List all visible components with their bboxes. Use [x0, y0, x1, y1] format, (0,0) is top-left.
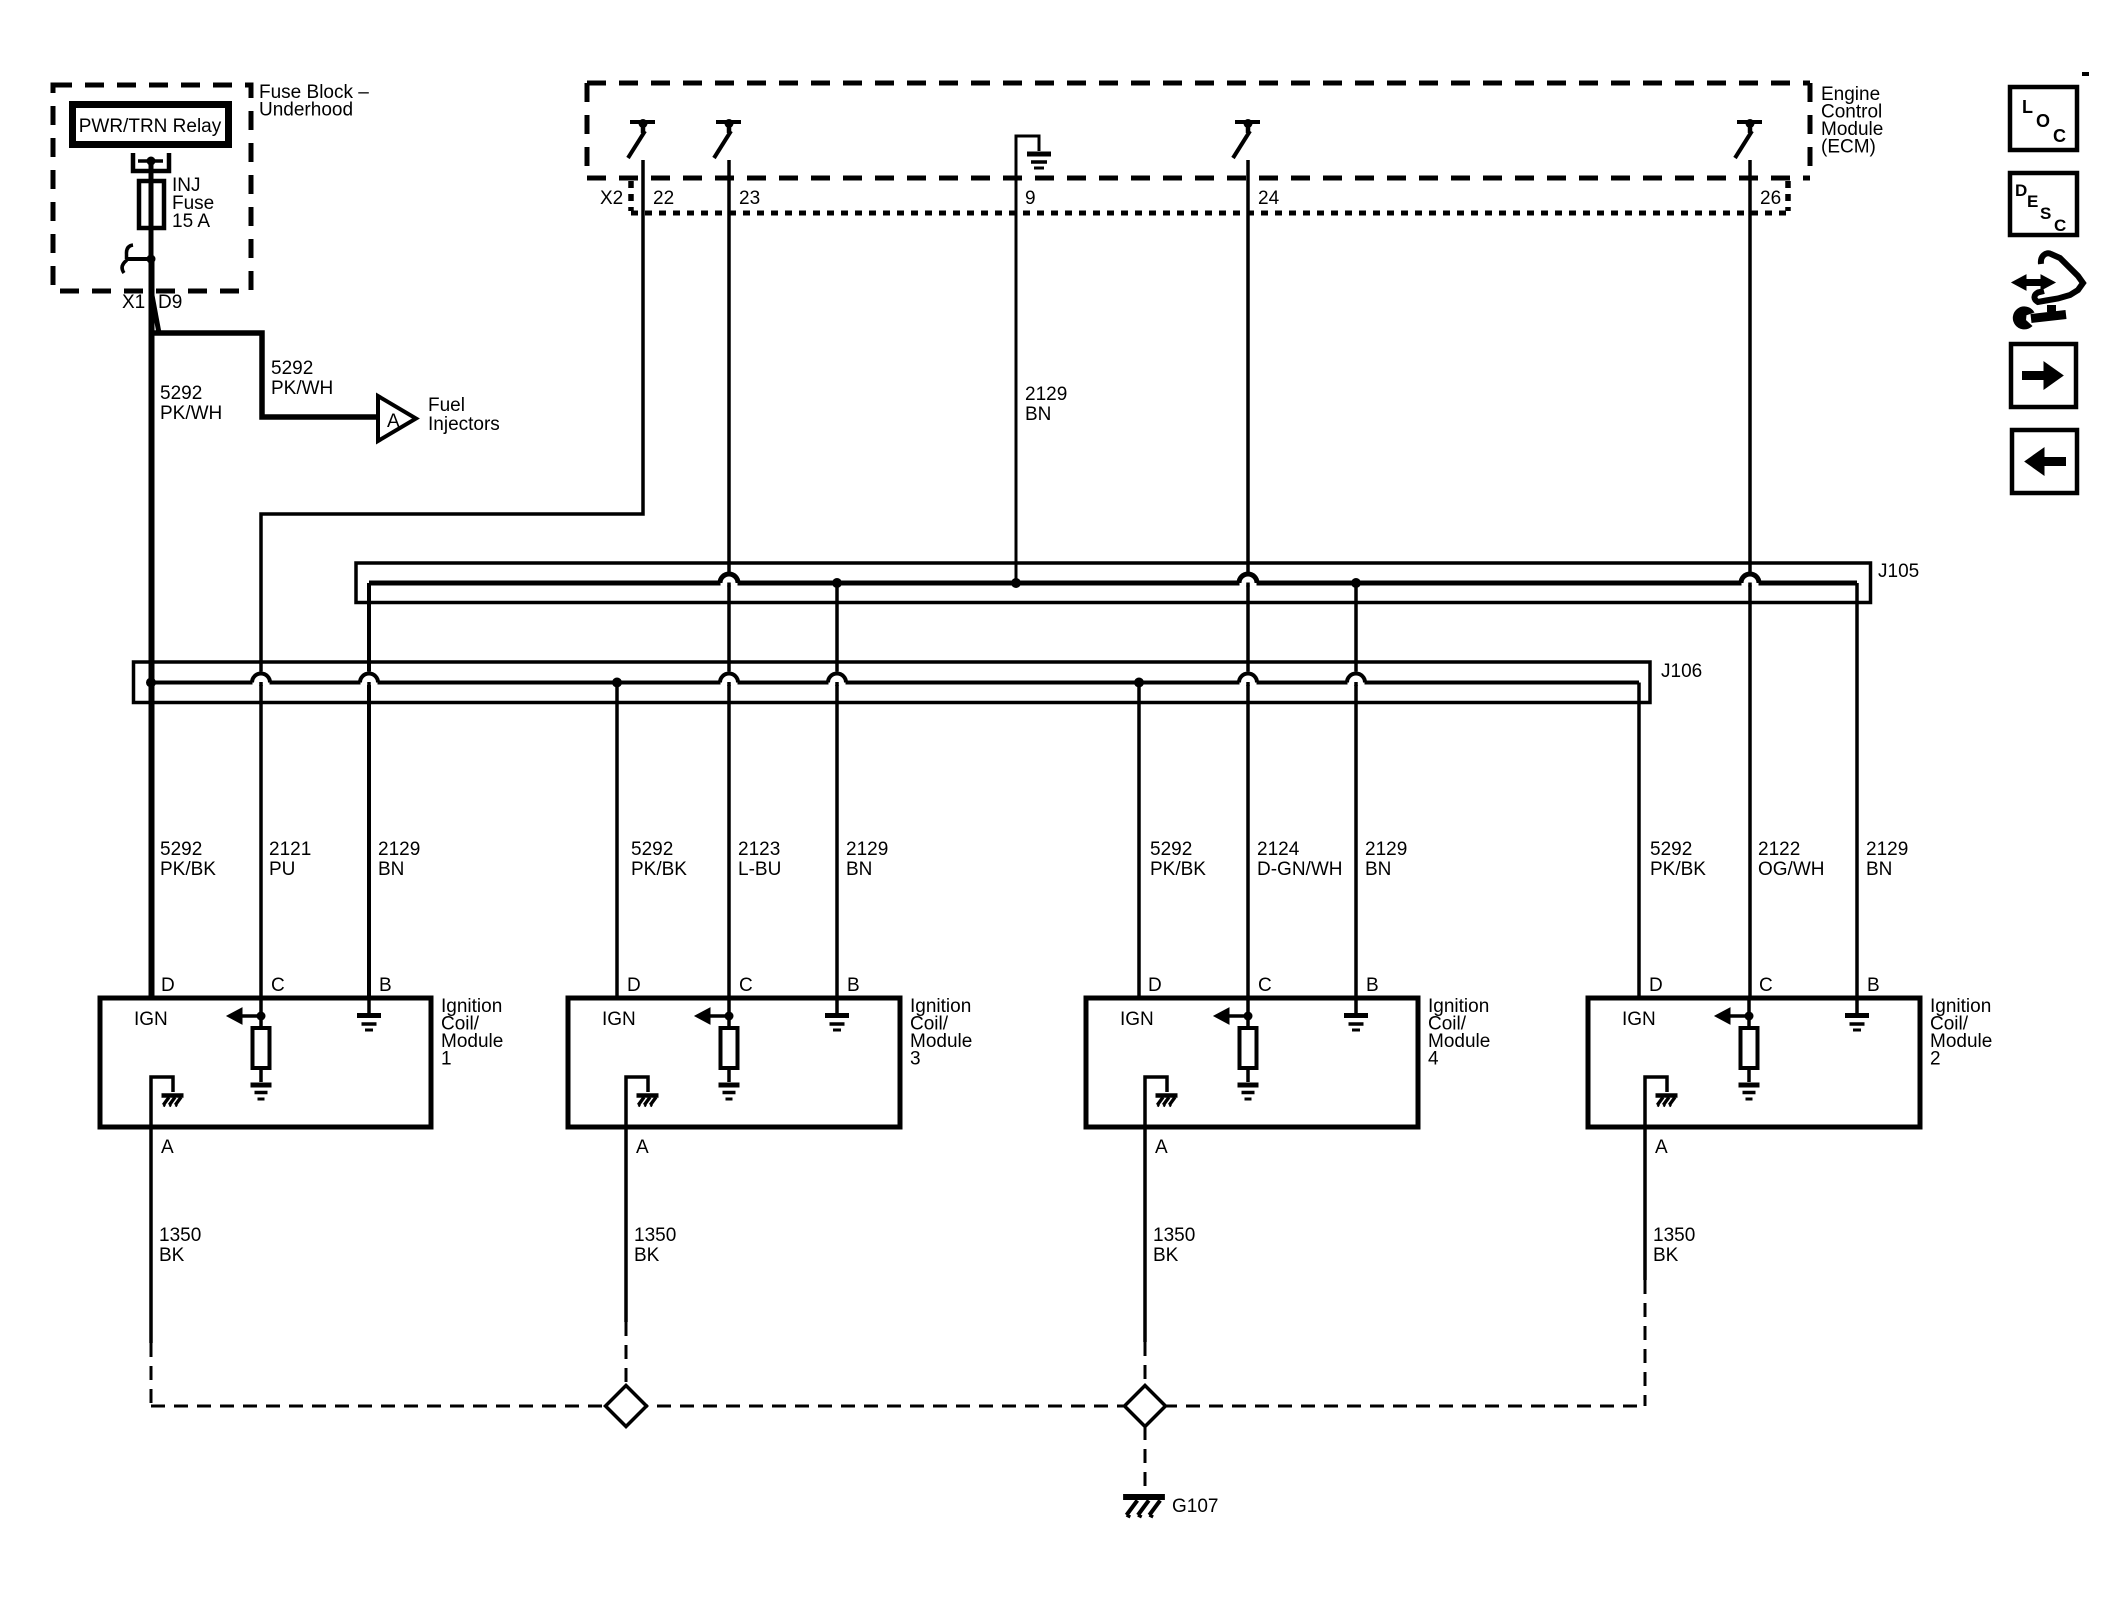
svg-text:PK/BK: PK/BK: [631, 859, 687, 880]
svg-text:IGN: IGN: [1120, 1009, 1154, 1030]
svg-text:IGN: IGN: [1622, 1009, 1656, 1030]
svg-text:C: C: [271, 975, 285, 996]
svg-text:D: D: [2015, 181, 2027, 200]
svg-text:2121: 2121: [269, 839, 311, 860]
svg-text:BK: BK: [1653, 1245, 1679, 1266]
svg-text:BN: BN: [1365, 859, 1391, 880]
svg-text:BN: BN: [1866, 859, 1892, 880]
svg-text:2123: 2123: [738, 839, 780, 860]
svg-text:3: 3: [910, 1049, 921, 1070]
svg-text:2129: 2129: [1365, 839, 1407, 860]
svg-text:2129: 2129: [846, 839, 888, 860]
svg-text:Injectors: Injectors: [428, 414, 500, 435]
svg-text:G107: G107: [1172, 1496, 1218, 1517]
svg-text:1350: 1350: [634, 1225, 676, 1246]
svg-text:PK/WH: PK/WH: [271, 378, 333, 399]
svg-text:5292: 5292: [1650, 839, 1692, 860]
svg-text:9: 9: [1025, 188, 1036, 209]
svg-text:D: D: [627, 975, 641, 996]
svg-text:B: B: [1867, 975, 1880, 996]
svg-text:S: S: [2040, 204, 2051, 223]
svg-text:1350: 1350: [1653, 1225, 1695, 1246]
svg-text:C: C: [2053, 126, 2066, 146]
svg-text:Fuel: Fuel: [428, 395, 465, 416]
svg-text:1: 1: [441, 1049, 452, 1070]
svg-text:E: E: [2027, 192, 2038, 211]
svg-text:2129: 2129: [1025, 384, 1067, 405]
svg-text:BN: BN: [378, 859, 404, 880]
svg-text:C: C: [739, 975, 753, 996]
svg-text:L-BU: L-BU: [738, 859, 781, 880]
svg-text:2129: 2129: [1866, 839, 1908, 860]
svg-text:A: A: [636, 1137, 649, 1158]
svg-text:D: D: [1148, 975, 1162, 996]
svg-text:BK: BK: [634, 1245, 660, 1266]
svg-text:PWR/TRN Relay: PWR/TRN Relay: [79, 116, 222, 137]
svg-text:BK: BK: [1153, 1245, 1179, 1266]
svg-text:2: 2: [1930, 1049, 1941, 1070]
svg-text:5292: 5292: [160, 839, 202, 860]
svg-text:BN: BN: [846, 859, 872, 880]
svg-text:PK/BK: PK/BK: [1650, 859, 1706, 880]
svg-text:X1: X1: [122, 292, 145, 313]
svg-text:C: C: [1258, 975, 1272, 996]
svg-text:A: A: [1155, 1137, 1168, 1158]
svg-text:B: B: [379, 975, 392, 996]
svg-text:15 A: 15 A: [172, 211, 210, 232]
svg-text:4: 4: [1428, 1049, 1439, 1070]
svg-text:J105: J105: [1878, 561, 1919, 582]
svg-text:1350: 1350: [159, 1225, 201, 1246]
svg-text:OG/WH: OG/WH: [1758, 859, 1825, 880]
svg-text:1350: 1350: [1153, 1225, 1195, 1246]
svg-text:2124: 2124: [1257, 839, 1300, 860]
svg-text:BN: BN: [1025, 404, 1051, 425]
svg-text:A: A: [1655, 1137, 1668, 1158]
svg-text:5292: 5292: [631, 839, 673, 860]
svg-text:IGN: IGN: [602, 1009, 636, 1030]
svg-text:L: L: [2022, 97, 2033, 117]
svg-text:23: 23: [739, 188, 760, 209]
svg-text:PK/BK: PK/BK: [1150, 859, 1206, 880]
svg-text:(ECM): (ECM): [1821, 137, 1876, 158]
svg-text:C: C: [1759, 975, 1773, 996]
svg-text:D-GN/WH: D-GN/WH: [1257, 859, 1342, 880]
svg-text:B: B: [1366, 975, 1379, 996]
svg-text:PU: PU: [269, 859, 295, 880]
svg-text:PK/WH: PK/WH: [160, 403, 222, 424]
svg-text:J106: J106: [1661, 661, 1702, 682]
svg-text:5292: 5292: [1150, 839, 1192, 860]
svg-text:2122: 2122: [1758, 839, 1800, 860]
svg-text:D: D: [1649, 975, 1663, 996]
svg-text:BK: BK: [159, 1245, 185, 1266]
svg-text:D9: D9: [158, 292, 182, 313]
svg-text:22: 22: [653, 188, 674, 209]
svg-text:O: O: [2036, 111, 2050, 131]
svg-text:A: A: [161, 1137, 174, 1158]
svg-text:5292: 5292: [160, 383, 202, 404]
svg-text:Underhood: Underhood: [259, 100, 353, 121]
svg-text:X2: X2: [600, 188, 623, 209]
svg-text:2129: 2129: [378, 839, 420, 860]
svg-text:A: A: [387, 411, 400, 432]
svg-text:PK/BK: PK/BK: [160, 859, 216, 880]
svg-text:C: C: [2054, 216, 2066, 235]
svg-text:24: 24: [1258, 188, 1280, 209]
svg-text:5292: 5292: [271, 358, 313, 379]
svg-text:IGN: IGN: [134, 1009, 168, 1030]
svg-text:26: 26: [1760, 188, 1781, 209]
svg-text:B: B: [847, 975, 860, 996]
svg-text:D: D: [161, 975, 175, 996]
